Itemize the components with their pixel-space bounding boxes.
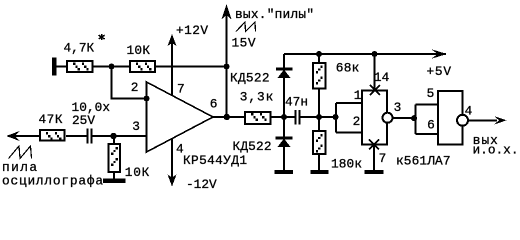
svg-text:5: 5 [427,86,435,101]
svg-text:и.о.х.: и.о.х. [473,143,519,158]
svg-text:10К: 10К [125,165,150,180]
svg-text:+5V: +5V [427,64,452,79]
svg-text:6: 6 [210,97,218,112]
svg-text:к561ЛА7: к561ЛА7 [396,153,451,168]
svg-text:-12V: -12V [186,177,217,192]
svg-text:14: 14 [374,70,390,85]
svg-text:3: 3 [394,100,402,115]
svg-text:вых."пилы": вых."пилы" [235,7,314,22]
svg-text:15V: 15V [232,36,256,51]
svg-text:7: 7 [379,151,387,166]
svg-text:47К: 47К [39,112,63,127]
svg-text:3,3к: 3,3к [240,90,273,105]
svg-text:4,7К: 4,7К [64,41,95,56]
svg-text:4: 4 [465,103,473,118]
svg-text:7: 7 [177,81,185,96]
svg-text:3: 3 [132,119,140,134]
svg-text:6: 6 [427,117,435,132]
svg-text:КД522: КД522 [230,71,270,86]
svg-text:2: 2 [353,114,361,129]
svg-text:68к: 68к [336,60,360,75]
svg-text:2: 2 [131,80,139,95]
svg-text:КД522: КД522 [233,139,272,154]
svg-text:1: 1 [354,88,362,103]
svg-text:осциллографа: осциллографа [2,173,103,188]
svg-text:180к: 180к [331,157,362,172]
svg-text:25V: 25V [72,113,95,128]
svg-text:+12V: +12V [176,23,208,38]
svg-text:10К: 10К [127,43,151,58]
svg-text:47н: 47н [285,95,308,110]
svg-text:КР544УД1: КР544УД1 [183,153,247,168]
